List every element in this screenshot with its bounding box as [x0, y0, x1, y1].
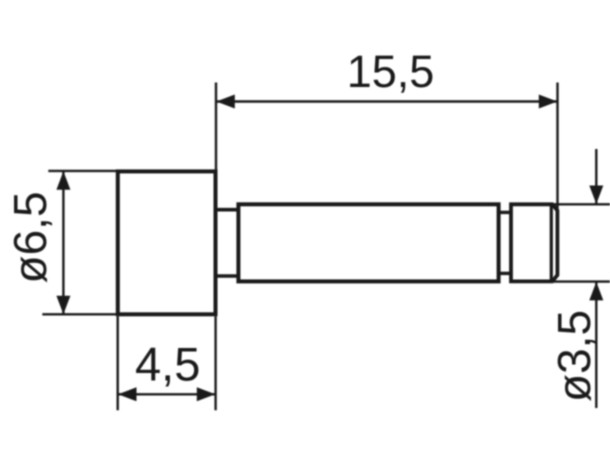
extension line top of ø6,5: [48, 170, 117, 172]
groove bottom line: [499, 272, 511, 275]
extension line top of ø3,5: [553, 203, 610, 205]
end cap outline with chamfered right corners: [511, 204, 557, 281]
svg-text:ø3,5: ø3,5: [548, 310, 600, 402]
svg-text:ø6,5: ø6,5: [4, 191, 56, 283]
svg-text:15,5: 15,5: [347, 46, 435, 97]
groove top line: [499, 211, 511, 214]
dimension line 4,5: [118, 393, 215, 395]
arrowhead down of ø3,5: [589, 186, 603, 205]
arrowhead bottom of ø6,5: [56, 296, 70, 315]
end cap chamfer inner line: [550, 205, 553, 281]
arrowhead top of ø6,5: [56, 171, 70, 190]
extension line right of 4,5: [214, 316, 216, 410]
neck top line: [216, 208, 239, 212]
dimension line upper segment ø3,5: [595, 149, 597, 204]
dimension line lower segment ø3,5: [595, 282, 597, 408]
extension line bottom of ø3,5: [553, 280, 610, 282]
svg-text:4,5: 4,5: [135, 338, 200, 391]
shaft outline (ø3,5 shaft): [238, 204, 498, 281]
extension line left of 15,5: [215, 83, 217, 172]
extension line right of 15,5: [556, 83, 558, 213]
arrowhead right of 4,5: [197, 387, 216, 401]
arrowhead left of 4,5: [118, 387, 137, 401]
neck bottom line: [216, 274, 239, 278]
head outline (4,5 x ø6,5 block): [118, 171, 216, 314]
arrowhead right of 15,5: [539, 95, 558, 109]
extension line bottom of ø6,5: [42, 313, 117, 315]
extension line left of 4,5: [116, 316, 118, 410]
dimension line 15,5: [216, 100, 557, 102]
arrowhead left of 15,5: [216, 95, 235, 109]
dimension line ø6,5: [62, 171, 64, 314]
arrowhead up of ø3,5: [589, 282, 603, 301]
